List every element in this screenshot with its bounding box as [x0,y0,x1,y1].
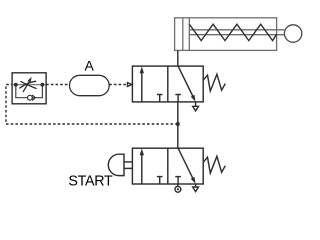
svg-text:A: A [85,58,95,74]
svg-text:START: START [68,174,113,190]
